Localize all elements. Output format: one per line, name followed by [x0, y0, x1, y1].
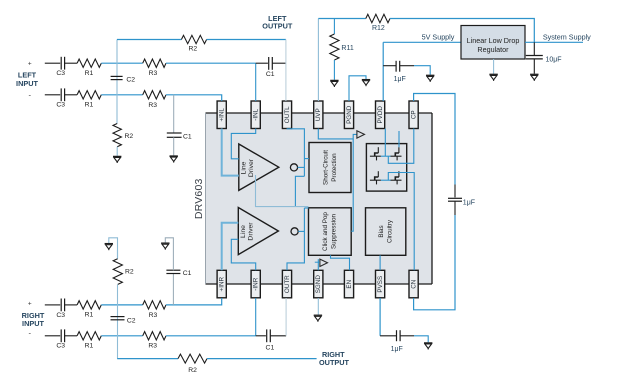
ground (right C1): [161, 243, 169, 250]
svg-text:R1: R1: [85, 101, 94, 108]
svg-text:C3: C3: [56, 312, 65, 319]
wire PVDD rail up: [382, 42, 384, 101]
svg-text:C2: C2: [126, 76, 135, 83]
wire A1 node to Short-Circuit Protection: [304, 158, 309, 160]
resistor R1 (right -): [77, 332, 101, 340]
svg-text:R1: R1: [85, 342, 94, 349]
wire left input - lead: [45, 94, 60, 96]
capacitor C1 shunt (right): [166, 270, 180, 273]
resistor R3 (right -): [143, 332, 166, 340]
transistor Q3 (charge pump bottom-left): [370, 171, 381, 184]
svg-text:Line: Line: [240, 225, 247, 238]
wire stub above Q2: [398, 131, 400, 147]
svg-text:EN: EN: [346, 279, 353, 288]
block Short-Circuit Protection: [309, 143, 351, 193]
wire feedback rail to R2 (left): [117, 39, 181, 41]
arrow UVP signal: [357, 131, 365, 138]
ground (SGND): [314, 315, 322, 322]
wire C1 shunt ground jog (right): [165, 238, 173, 270]
resistor R12: [366, 14, 390, 22]
wire R2 ground jog (right): [109, 238, 118, 259]
output circle A1: [290, 164, 297, 171]
wire 1uF to ground (bottom): [414, 336, 428, 343]
op-amp A2 Line Driver (right channel): [238, 208, 278, 255]
block Click and Pop Suppression: [309, 208, 352, 256]
svg-text:C1: C1: [183, 270, 192, 277]
wire right input + lead: [45, 304, 60, 306]
transistor Q4 (charge pump bottom-right): [391, 171, 402, 184]
svg-text:R2: R2: [188, 367, 197, 374]
wire A1 output to node: [298, 166, 305, 168]
capacitor C3 (left +): [61, 57, 77, 70]
wire 1uF to ground: [414, 66, 430, 75]
resistor R2 feedback (left): [181, 35, 206, 43]
wire C2 vertical rail (right): [117, 250, 119, 259]
pin UVP (top): [314, 101, 323, 129]
svg-text:Driver: Driver: [247, 222, 254, 241]
wire PVSS to 1uF: [379, 298, 381, 336]
svg-text:+: +: [28, 60, 32, 67]
wire +INL pin to A1 lower input: [222, 129, 239, 176]
svg-text:C1: C1: [266, 71, 275, 78]
ground (10uF): [530, 74, 538, 81]
wire UVP pin to comparator arrow: [318, 129, 357, 139]
svg-text:CN: CN: [411, 279, 418, 289]
wire R1 to R3 (left + row): [101, 62, 142, 64]
pin PVDD (top): [376, 101, 385, 129]
svg-text:Linear Low Drop: Linear Low Drop: [467, 36, 520, 45]
pin OUTR (bottom): [282, 270, 291, 298]
wire +INR node to C1 shunt (right): [172, 274, 174, 305]
wire left input + lead: [45, 62, 60, 64]
wire -INL node to C1 (left series): [256, 62, 268, 64]
svg-text:1μF: 1μF: [394, 76, 406, 83]
regulator U2 Linear Low Drop Regulator: [461, 26, 525, 60]
svg-text:INPUT: INPUT: [22, 319, 44, 328]
svg-text:R3: R3: [148, 343, 157, 350]
wire A2 output to node: [298, 230, 304, 232]
svg-text:Suppression: Suppression: [331, 214, 338, 250]
svg-text:10μF: 10μF: [545, 56, 561, 63]
svg-text:-INR: -INR: [253, 277, 260, 290]
svg-text:UVP: UVP: [315, 108, 322, 121]
svg-text:5V Supply: 5V Supply: [422, 33, 455, 42]
op-amp A1 Line Driver (left channel): [239, 144, 279, 190]
wire charge pump to CP pin: [388, 129, 414, 164]
svg-text:R1: R1: [85, 70, 94, 77]
resistor R2 feedback (right): [178, 354, 207, 363]
wire +INR pin to A2 upper input: [222, 223, 239, 271]
capacitor 10uF (system supply): [526, 42, 543, 73]
wire -INR pin to A2 lower input: [231, 239, 255, 270]
wire charge pump to CN pin: [388, 173, 414, 271]
capacitor C2 (right): [111, 317, 125, 320]
wire R2 to left output: [207, 39, 286, 41]
pin +INR (bottom): [217, 270, 226, 298]
svg-text:+INR: +INR: [219, 276, 226, 291]
wire R3 to -INR node (right - row): [166, 335, 256, 337]
wire -INR drop: [255, 298, 257, 336]
capacitor C2 (left): [111, 76, 123, 79]
wire 5V supply: [383, 41, 461, 43]
wire R3 to -INL node (left + row): [166, 62, 256, 64]
wire R2 to right output: [207, 358, 317, 360]
svg-text:C3: C3: [56, 343, 65, 350]
wire PVDD pin into charge pump: [384, 129, 386, 157]
resistor R2 shunt (right): [113, 259, 122, 285]
svg-text:Regulator: Regulator: [477, 45, 509, 54]
svg-text:+: +: [28, 300, 32, 307]
svg-text:-: -: [29, 329, 32, 338]
svg-text:R1: R1: [85, 312, 94, 319]
svg-text:SGND: SGND: [315, 275, 322, 294]
pin EN (bottom): [344, 270, 353, 298]
resistor R11 shunt: [330, 34, 339, 60]
svg-text:1μF: 1μF: [463, 199, 475, 206]
svg-text:R2: R2: [125, 269, 134, 276]
wire R1 to R3 (right + row): [101, 304, 142, 306]
block charge pump FET array: [366, 144, 406, 192]
wire system supply: [525, 41, 583, 43]
svg-text:OUTL: OUTL: [284, 106, 291, 123]
svg-text:DRV603: DRV603: [193, 178, 205, 219]
svg-text:Click and Pop: Click and Pop: [322, 212, 329, 251]
svg-text:System Supply: System Supply: [543, 33, 591, 42]
wire R1 to R3 (right - row): [101, 335, 142, 337]
pin -INR (bottom): [251, 270, 260, 298]
capacitor 1uF (PVDD decoupling): [390, 61, 414, 72]
svg-text:PGND: PGND: [346, 105, 353, 124]
wire OUTR vertical (faint): [285, 298, 287, 336]
pin CN (bottom): [409, 270, 418, 298]
pin +INL (top): [217, 101, 226, 129]
svg-text:OUTPUT: OUTPUT: [262, 22, 293, 31]
capacitor C1 series (left): [269, 57, 286, 70]
arrow SGND signal: [320, 259, 328, 266]
svg-text:CP: CP: [411, 110, 418, 119]
svg-text:Protection: Protection: [331, 153, 338, 182]
resistor R1 (right +): [77, 301, 101, 309]
wire R2 to C2 rail (right): [117, 284, 119, 358]
ground (R11): [330, 80, 338, 87]
pin PVSS (bottom): [376, 270, 385, 298]
IC U1 DRV603 body: [206, 113, 433, 284]
svg-text:R3: R3: [149, 312, 158, 319]
resistor R3 (right +): [143, 301, 166, 309]
capacitor C3 (right -): [61, 329, 77, 342]
wire SGND to ground: [317, 298, 319, 315]
svg-text:C1: C1: [183, 133, 192, 140]
svg-text:Line: Line: [240, 161, 247, 174]
svg-text:Short-Circuit: Short-Circuit: [323, 150, 330, 185]
output circle A2: [291, 228, 298, 235]
wire C2 vertical rail (left): [116, 40, 118, 124]
wire A1 output node to OUTL pin: [287, 128, 304, 176]
svg-text:C3: C3: [56, 70, 65, 77]
wire R1 to R3 (left - row): [101, 94, 142, 96]
ground (regulator): [489, 74, 497, 81]
wire R11 branch: [333, 19, 335, 35]
wire +INL node to C1 shunt (left): [173, 95, 175, 133]
svg-text:R3: R3: [148, 102, 157, 109]
pin -INL (top): [251, 101, 260, 129]
svg-text:R2: R2: [188, 46, 197, 53]
wire OUTL vertical (faint): [285, 40, 287, 102]
svg-text:INPUT: INPUT: [16, 79, 38, 88]
capacitor C3 (left -): [61, 88, 77, 101]
wire -INL pin to A1 upper input: [231, 129, 255, 159]
wire regulator to ground: [493, 59, 495, 74]
pin OUTL (top): [282, 101, 291, 129]
svg-text:Circuitry: Circuitry: [387, 219, 394, 243]
svg-text:C3: C3: [56, 102, 65, 109]
wire C1 shunt to ground (left): [173, 137, 175, 155]
pin PGND (top): [344, 101, 353, 129]
transistor Q2 (charge pump top-right): [391, 147, 402, 160]
svg-text:R12: R12: [372, 25, 385, 32]
wire A2 output node to OUTR pin: [287, 208, 304, 270]
wire A2 node to Click and Pop box: [304, 207, 308, 209]
wire UVP rail up: [317, 19, 319, 102]
wire R12 to system supply: [390, 19, 534, 43]
resistor R2 shunt (left): [113, 124, 121, 147]
wire PGND to ground jog: [349, 76, 366, 101]
transistor Q1 (charge pump top-left): [370, 147, 381, 160]
wire R3 to +INR (right + row): [166, 298, 222, 305]
svg-text:R11: R11: [341, 45, 353, 52]
svg-text:C1: C1: [266, 344, 275, 351]
wire -INR node to C1 (right series): [256, 335, 266, 337]
ground (1uF bottom): [424, 343, 432, 350]
ground (PGND): [362, 80, 370, 87]
ground (left C1): [170, 156, 178, 163]
svg-text:-: -: [29, 91, 32, 100]
resistor R1 (left +): [77, 59, 101, 67]
svg-text:PVSS: PVSS: [377, 276, 384, 293]
wire EN pin to Bias Circuitry: [331, 255, 350, 270]
svg-text:R3: R3: [149, 70, 158, 77]
svg-text:C2: C2: [127, 317, 136, 324]
wire SGND pin internal: [317, 259, 319, 270]
ground (right R2): [105, 244, 113, 251]
capacitor 1uF (PVSS): [380, 330, 414, 341]
capacitor C1 shunt (left): [167, 133, 182, 137]
svg-text:+INL: +INL: [219, 108, 226, 122]
ground (1uF top): [426, 75, 434, 82]
pin CP (top): [409, 101, 418, 129]
wire CP pin to flying cap: [414, 94, 455, 185]
pin SGND (bottom): [314, 270, 323, 298]
capacitor 1uF flying: [448, 185, 462, 216]
resistor R3 (left +): [143, 59, 166, 67]
wire UVP branch to Click and Pop box: [351, 139, 353, 231]
capacitor C3 (right +): [61, 299, 77, 312]
ground (left R2): [113, 156, 121, 163]
wire feedback rail to R2 (right): [117, 358, 178, 360]
wire charge pump bottom row connect: [381, 179, 391, 181]
wire UVP rail to R12: [318, 18, 365, 20]
svg-text:1μF: 1μF: [391, 346, 403, 353]
svg-text:OUTR: OUTR: [284, 275, 291, 293]
svg-text:PVDD: PVDD: [377, 106, 384, 124]
wire R11 to ground: [333, 60, 335, 80]
svg-text:-INL: -INL: [253, 108, 260, 120]
wire -INL drop: [255, 63, 257, 101]
wire PVDD to 1uF decoupling: [383, 65, 390, 67]
wire flying cap to CN pin: [414, 215, 455, 310]
resistor R1 (left -): [77, 91, 101, 99]
wire R3 to +INL (left - row): [166, 95, 222, 101]
wire A1 node down-left to click-pop rail: [295, 176, 304, 206]
wire PVSS pin to Bias Circuitry: [379, 255, 381, 270]
wire click-pop rail horizontal: [256, 175, 309, 207]
wire charge pump top row connect: [381, 155, 391, 157]
wire R2 to ground (left): [116, 147, 118, 156]
svg-text:R2: R2: [124, 133, 133, 140]
svg-text:OUTPUT: OUTPUT: [319, 358, 350, 367]
svg-text:Driver: Driver: [248, 158, 255, 177]
wire right input - lead: [45, 335, 60, 337]
capacitor C1 series (right): [267, 329, 286, 342]
block Bias Circuitry: [366, 208, 406, 256]
resistor R3 (left -): [143, 91, 166, 99]
wire SGND arrow stub: [315, 261, 320, 263]
svg-text:Bias: Bias: [378, 225, 385, 237]
